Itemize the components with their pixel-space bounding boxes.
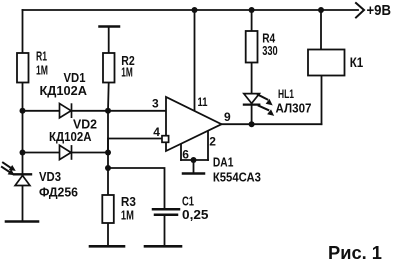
svg-text:R1: R1 bbox=[36, 50, 47, 64]
svg-text:+9В: +9В bbox=[367, 2, 392, 19]
svg-text:4: 4 bbox=[153, 125, 160, 139]
svg-text:АЛ307: АЛ307 bbox=[276, 102, 312, 116]
svg-text:6: 6 bbox=[182, 148, 189, 162]
svg-text:1М: 1М bbox=[121, 66, 133, 80]
svg-text:1М: 1М bbox=[36, 63, 48, 77]
svg-text:R4: R4 bbox=[262, 31, 275, 45]
svg-text:9: 9 bbox=[224, 110, 231, 124]
svg-text:330: 330 bbox=[262, 44, 278, 58]
svg-text:2: 2 bbox=[209, 135, 216, 149]
svg-text:11: 11 bbox=[198, 95, 208, 109]
svg-text:DA1: DA1 bbox=[213, 155, 234, 169]
svg-text:HL1: HL1 bbox=[278, 89, 294, 101]
svg-text:КД102А: КД102А bbox=[40, 84, 88, 98]
svg-text:ФД256: ФД256 bbox=[39, 186, 78, 200]
svg-text:VD1: VD1 bbox=[64, 71, 86, 85]
svg-text:К1: К1 bbox=[350, 54, 364, 70]
svg-text:Рис. 1: Рис. 1 bbox=[328, 242, 382, 263]
svg-text:0,25: 0,25 bbox=[182, 208, 209, 222]
svg-text:3: 3 bbox=[152, 97, 159, 111]
svg-text:R3: R3 bbox=[121, 195, 136, 209]
svg-text:КД102А: КД102А bbox=[49, 130, 92, 144]
svg-text:1М: 1М bbox=[121, 209, 134, 223]
svg-text:К554СА3: К554СА3 bbox=[213, 171, 261, 185]
svg-text:VD3: VD3 bbox=[39, 170, 61, 184]
svg-text:С1: С1 bbox=[182, 195, 194, 209]
